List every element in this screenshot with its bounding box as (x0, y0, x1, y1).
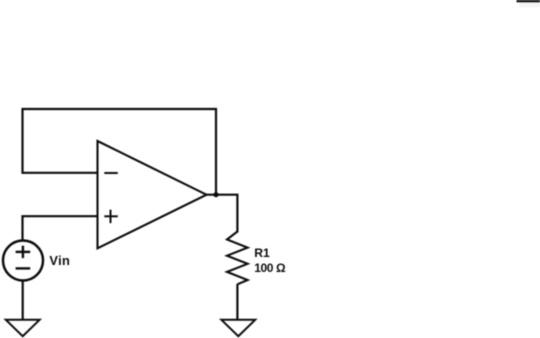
wire: op-amp output to resistor (207, 195, 238, 233)
voltage source - marker (16, 267, 31, 269)
op-amp U1 (98, 141, 207, 248)
wire: non-inverting input from source (23, 216, 98, 241)
svg-text:100 Ω: 100 Ω (254, 261, 286, 275)
crop artifact: black bar at top-right corner (517, 0, 540, 2)
node: output junction dot (213, 192, 218, 197)
wire: feedback loop from inverting input (left, up, across top, down to output) (23, 109, 217, 193)
svg-text:Vin: Vin (49, 253, 70, 268)
svg-text:R1: R1 (254, 246, 270, 260)
wire: resistor to ground (236, 284, 238, 320)
voltage source + marker (16, 246, 31, 258)
ground (right) (221, 320, 255, 336)
voltage source V1 (Vin) (3, 241, 43, 281)
crop artifact: faint gray smudge under bar (520, 3, 540, 7)
wire: source to ground (22, 281, 24, 321)
ground (left) (6, 320, 40, 336)
resistor R1 (227, 232, 248, 285)
op-amp non-inverting input marker (plus) (104, 210, 118, 223)
op-amp inverting input marker (minus) (104, 172, 118, 174)
